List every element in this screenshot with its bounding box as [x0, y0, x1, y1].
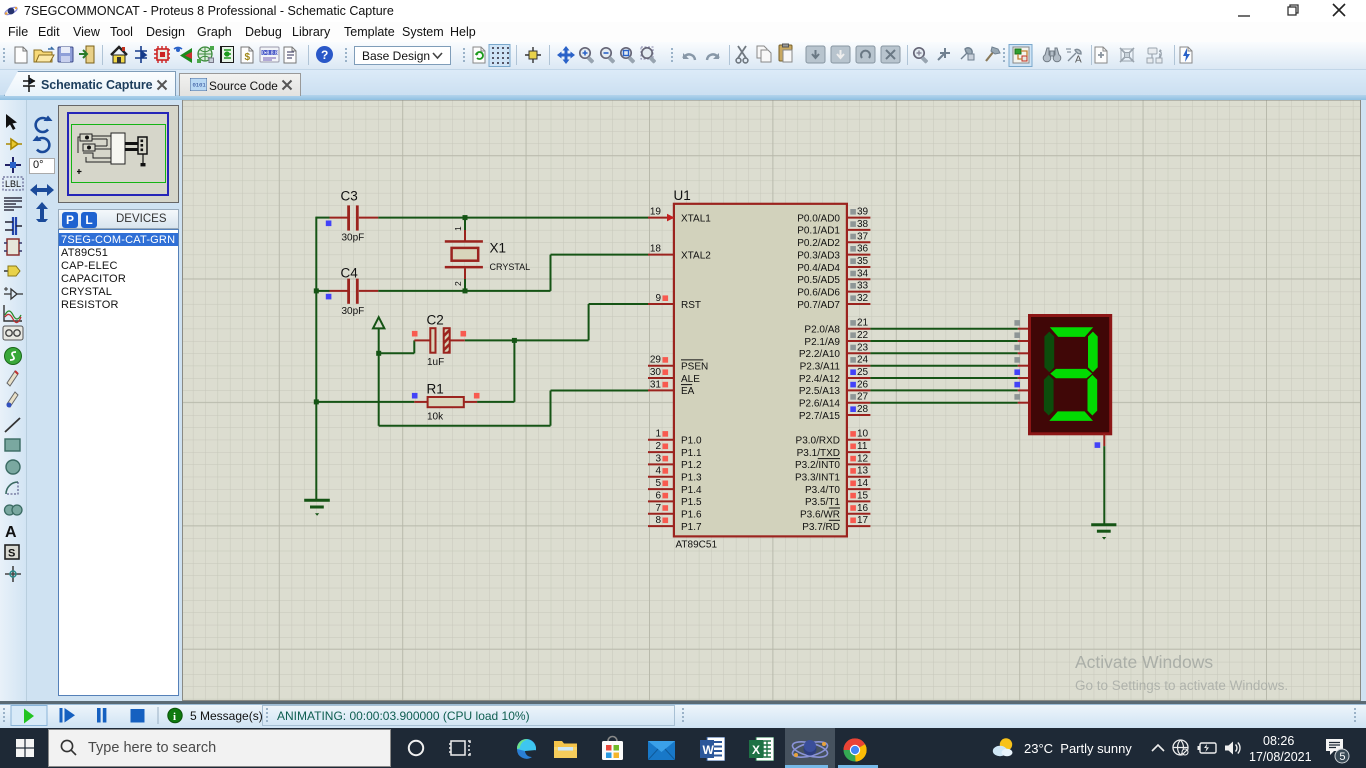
pin 36 (P0.3/AD3) right stub	[797, 244, 870, 262]
svg-text:17: 17	[857, 515, 869, 526]
tab bar	[0, 70, 1366, 100]
pan	[557, 46, 575, 64]
pin 38 (P0.1/AD1) right stub	[797, 219, 870, 237]
pin 26 (P2.5/A13) right stub	[799, 379, 871, 397]
inactive tab Source Code	[179, 73, 301, 96]
svg-text:U1: U1	[674, 188, 691, 203]
wire P2.0 to display seg	[870, 320, 1029, 329]
proteus active	[785, 728, 835, 768]
svg-text:30: 30	[650, 367, 662, 378]
devices list	[58, 229, 179, 696]
title bar	[0, 0, 1366, 22]
zoom in	[580, 48, 595, 64]
svg-text:37: 37	[857, 231, 869, 242]
svg-text:18: 18	[650, 244, 662, 255]
svg-text:6: 6	[655, 490, 661, 501]
status bar	[0, 704, 1366, 728]
pin 35 (P0.4/AD4) right stub	[797, 256, 870, 274]
svg-text:26: 26	[857, 379, 869, 390]
refresh	[473, 47, 485, 63]
power symbol (VCC arrow)	[373, 317, 384, 426]
ground (display common)	[1091, 525, 1116, 540]
bom	[241, 47, 253, 63]
pin 17 (P3.7/RD) right stub	[802, 515, 870, 533]
tray	[1150, 742, 1166, 754]
svg-text:24: 24	[857, 355, 869, 366]
svg-text:P2.4/A12: P2.4/A12	[799, 374, 841, 385]
svg-text:9: 9	[655, 293, 661, 304]
svg-text:22: 22	[857, 330, 869, 341]
pin 13 (P3.3/INT1) right stub	[795, 466, 870, 484]
pin 37 (P0.2/AD2) right stub	[797, 231, 870, 249]
wire C2 left to power rail	[379, 340, 415, 353]
svg-text:11: 11	[857, 441, 868, 452]
svg-text:EA: EA	[681, 386, 695, 397]
explorer	[554, 739, 578, 760]
pin 29 (PSEN) left stub	[648, 355, 708, 373]
svg-text:P2.5/A13: P2.5/A13	[799, 386, 841, 397]
taskbar	[0, 728, 1366, 768]
node junction power rail / C2	[376, 351, 381, 356]
pin 30 (ALE) left stub	[648, 367, 700, 385]
svg-text:P3.4/T0: P3.4/T0	[805, 485, 840, 496]
XTAL1 clock arrow marker	[667, 214, 675, 222]
svg-text:P0.7/AD7: P0.7/AD7	[797, 300, 840, 311]
zoom area	[641, 47, 656, 64]
svg-text:P2.6/A14: P2.6/A14	[799, 399, 841, 410]
pin 34 (P0.5/AD5) right stub	[797, 268, 870, 286]
pin 32 (P0.7/AD7) right stub	[797, 293, 870, 311]
active tab Schematic Capture	[4, 71, 176, 96]
wire P2.1 to display seg	[870, 332, 1029, 341]
search box	[48, 729, 391, 768]
svg-text:P0.3/AD3: P0.3/AD3	[797, 250, 840, 261]
undo redo	[683, 53, 695, 60]
svg-text:P3.5/T1: P3.5/T1	[805, 497, 840, 508]
edge	[516, 738, 537, 759]
svg-text:21: 21	[857, 318, 869, 329]
svg-text:7: 7	[655, 503, 661, 514]
svg-text:P0.0/AD0: P0.0/AD0	[797, 213, 840, 224]
start button	[16, 739, 34, 757]
svg-text:5: 5	[655, 478, 661, 489]
wire R1 net	[316, 401, 514, 403]
wire P2.2 to display seg	[870, 345, 1029, 354]
svg-text:33: 33	[857, 281, 869, 292]
svg-text:Go to Settings to activate Win: Go to Settings to activate Windows.	[1075, 678, 1288, 693]
cut	[736, 46, 748, 63]
svg-text:RST: RST	[681, 300, 701, 311]
svg-text:P1.2: P1.2	[681, 460, 702, 471]
svg-text:P2.2/A10: P2.2/A10	[799, 349, 841, 360]
svg-text:2: 2	[453, 281, 463, 286]
svg-text:XTAL1: XTAL1	[681, 213, 711, 224]
svg-text:P3.7/RD: P3.7/RD	[802, 522, 840, 533]
book circuit	[220, 46, 234, 63]
svg-text:13: 13	[857, 466, 869, 477]
svg-text:14: 14	[857, 478, 869, 489]
grid toggle pressed	[489, 45, 510, 67]
svg-text:35: 35	[857, 256, 869, 267]
svg-text:P0.4/AD4: P0.4/AD4	[797, 263, 840, 274]
notes	[284, 5, 572, 64]
weather	[992, 736, 1015, 759]
svg-text:A: A	[1075, 55, 1082, 66]
excel	[749, 737, 774, 761]
svg-text:P2.0/A8: P2.0/A8	[804, 325, 840, 336]
svg-text:0•8.8.8: 0•8.8.8	[262, 50, 278, 56]
zoom out	[601, 48, 616, 64]
pin 19 (XTAL1) left stub	[648, 207, 711, 225]
wire P2.6 to display seg	[870, 394, 1029, 403]
pin 7 (P1.6) left stub	[648, 503, 702, 521]
view arrow	[174, 48, 192, 64]
red chip	[154, 46, 170, 63]
svg-text:28: 28	[857, 404, 869, 415]
crystal X1	[445, 218, 530, 291]
svg-text:32: 32	[857, 293, 869, 304]
menu bar	[0, 22, 1366, 42]
copy	[757, 46, 771, 62]
svg-text:P3.2/INT0: P3.2/INT0	[795, 460, 840, 471]
window buttons	[1230, 0, 1366, 22]
cortana	[407, 739, 425, 757]
rotate controls	[27, 100, 58, 230]
work area green border	[71, 124, 166, 183]
node junction RST/R1	[512, 338, 517, 343]
pin 24 (P2.3/A11) right stub	[800, 355, 871, 373]
svg-text:R1: R1	[427, 382, 444, 397]
component mode	[135, 46, 147, 63]
paste	[779, 44, 792, 62]
pin 2 (P1.1) left stub	[648, 441, 702, 459]
pin 10 (P3.0/RXD) right stub	[796, 429, 871, 447]
origin	[525, 47, 541, 63]
svg-text:P2.7/A15: P2.7/A15	[799, 411, 841, 422]
svg-text:23: 23	[857, 342, 869, 353]
svg-text:30pF: 30pF	[342, 233, 365, 244]
svg-text:P1.6: P1.6	[681, 510, 702, 521]
svg-text:P3.6/WR: P3.6/WR	[800, 510, 840, 521]
svg-text:34: 34	[857, 268, 869, 279]
node junction R1 left	[314, 399, 319, 404]
svg-text:16: 16	[857, 503, 869, 514]
capacitor C4	[326, 266, 378, 317]
svg-text:5: 5	[1339, 751, 1345, 763]
chrome	[843, 738, 867, 762]
svg-text:CRYSTAL: CRYSTAL	[490, 262, 531, 272]
pin 21 (P2.0/A8) right stub	[804, 318, 870, 336]
svg-text:4: 4	[655, 466, 661, 477]
sheet border	[67, 112, 169, 196]
node junction C3/X1 top	[463, 215, 468, 220]
svg-text:38: 38	[857, 219, 869, 230]
resistor R1	[412, 382, 480, 423]
P button	[62, 212, 78, 228]
notifications	[1326, 738, 1350, 764]
svg-text:P2.3/A11: P2.3/A11	[800, 362, 841, 373]
svg-text:1uF: 1uF	[427, 357, 444, 368]
svg-text:$: $	[245, 52, 251, 63]
svg-text:A: A	[5, 524, 17, 541]
svg-text:P0.6/AD6: P0.6/AD6	[797, 287, 840, 298]
svg-text:27: 27	[857, 392, 869, 403]
svg-text:P1.5: P1.5	[681, 497, 702, 508]
svg-text:10k: 10k	[427, 412, 444, 423]
svg-text:2: 2	[655, 441, 661, 452]
svg-text:P1.0: P1.0	[681, 436, 702, 447]
svg-text:P0.1/AD1: P0.1/AD1	[797, 226, 840, 237]
IC U1 body	[674, 188, 847, 551]
svg-text:S: S	[8, 548, 15, 560]
pin 1 (P1.0) left stub	[648, 429, 702, 447]
binoculars	[1043, 48, 1061, 62]
svg-text:XTAL2: XTAL2	[681, 250, 711, 261]
pin 27 (P2.6/A14) right stub	[799, 392, 871, 410]
open	[34, 47, 54, 62]
globe search	[197, 46, 214, 63]
save	[58, 47, 73, 62]
new	[15, 47, 27, 63]
word	[700, 737, 725, 761]
wire P2.3 to display seg	[870, 357, 1029, 366]
svg-text:31: 31	[650, 379, 662, 390]
svg-text:8: 8	[655, 515, 661, 526]
svg-text:10: 10	[857, 429, 869, 440]
pin 18 (XTAL2) left stub	[648, 244, 711, 262]
svg-text:Activate Windows: Activate Windows	[1075, 652, 1213, 672]
title text	[24, 4, 394, 18]
pin 39 (P0.0/AD0) right stub	[797, 207, 870, 225]
svg-text:P1.3: P1.3	[681, 473, 702, 484]
node junction C4 left	[314, 288, 319, 293]
home	[111, 47, 127, 63]
svg-text:C4: C4	[341, 266, 359, 281]
node junction C4/X1 bottom	[463, 288, 468, 293]
svg-text:?: ?	[321, 48, 328, 62]
svg-text:25: 25	[857, 367, 869, 378]
pin 33 (P0.6/AD6) right stub	[797, 281, 870, 299]
svg-text:30pF: 30pF	[342, 306, 365, 317]
wire EA net (power rail to pin31)	[379, 391, 649, 426]
svg-text:P0.2/AD2: P0.2/AD2	[797, 238, 840, 249]
svg-text:39: 39	[857, 207, 869, 218]
svg-text:3: 3	[655, 453, 661, 464]
svg-text:P0.5/AD5: P0.5/AD5	[797, 275, 840, 286]
app icon	[4, 4, 18, 18]
svg-text:X1: X1	[490, 241, 507, 256]
pin 23 (P2.2/A10) right stub	[799, 342, 871, 360]
pin 25 (P2.4/A12) right stub	[799, 367, 871, 385]
svg-text:AT89C51: AT89C51	[676, 540, 718, 551]
svg-text:19: 19	[650, 207, 662, 218]
svg-text:0101: 0101	[193, 82, 207, 89]
svg-text:C2: C2	[427, 313, 444, 328]
pin 12 (P3.2/INT0) right stub	[795, 453, 870, 471]
svg-text:i: i	[173, 711, 176, 723]
svg-text:P1.1: P1.1	[681, 448, 702, 459]
svg-text:PSEN: PSEN	[681, 362, 708, 373]
left tool strip	[0, 100, 27, 703]
svg-text:X: X	[752, 743, 760, 757]
mail	[648, 739, 675, 760]
toolbar	[0, 42, 1366, 70]
pin 3 (P1.2) left stub	[648, 453, 702, 471]
task view	[449, 739, 474, 757]
svg-text:12: 12	[857, 453, 869, 464]
svg-text:W: W	[703, 743, 715, 757]
activate windows watermark	[1075, 652, 1288, 693]
pin 5 (P1.4) left stub	[648, 478, 702, 496]
wire XTAL2 net (C4 row to pin18)	[316, 255, 648, 291]
svg-text:LBL: LBL	[5, 179, 21, 189]
pin 16 (P3.6/WR) right stub	[800, 503, 870, 521]
pin 6 (P1.5) left stub	[648, 490, 702, 508]
store	[600, 735, 625, 761]
wire P2.5 to display seg	[870, 382, 1029, 391]
mini schematic	[71, 124, 166, 183]
border below schematic	[0, 701, 1366, 704]
L button	[81, 212, 97, 228]
svg-text:1: 1	[655, 429, 661, 440]
Base Design combo	[354, 46, 451, 65]
svg-text:P1.4: P1.4	[681, 485, 702, 496]
svg-text:ALE: ALE	[681, 374, 700, 385]
import	[79, 46, 94, 63]
wire display common to ground	[1095, 434, 1105, 524]
pin 11 (P3.1/TXD) right stub	[797, 441, 871, 459]
svg-text:36: 36	[857, 244, 869, 255]
wire P2.4 to display seg	[870, 369, 1029, 378]
overview (world view) panel	[58, 105, 179, 203]
pin 22 (P2.1/A9) right stub	[804, 330, 870, 348]
svg-text:P3.3/INT1: P3.3/INT1	[795, 473, 840, 484]
7-segment display DS1 body	[1030, 316, 1111, 434]
pin 8 (P1.7) left stub	[648, 515, 702, 533]
svg-text:C3: C3	[341, 189, 358, 204]
pin 31 (EA) left stub	[648, 379, 695, 397]
svg-text:P3.1/TXD: P3.1/TXD	[797, 448, 840, 459]
wire RST net (C2 right to pin9)	[465, 304, 649, 402]
ground (left rail)	[304, 500, 330, 516]
wire left vertical GND rail	[315, 217, 317, 500]
svg-text:P3.0/RXD: P3.0/RXD	[796, 436, 840, 447]
svg-text:P1.7: P1.7	[681, 522, 702, 533]
meter	[260, 47, 279, 62]
pin 15 (P3.5/T1) right stub	[805, 490, 870, 508]
help	[316, 46, 333, 63]
pin 9 (RST) left stub	[648, 293, 701, 311]
pin 28 (P2.7/A15) right stub	[799, 404, 871, 422]
property assign	[1066, 49, 1082, 66]
pin 14 (P3.4/T0) right stub	[805, 478, 870, 496]
devices panel header	[58, 209, 179, 229]
svg-text:1: 1	[453, 226, 463, 231]
capacitor C2 (electrolytic 1uF)	[412, 313, 466, 369]
capacitor C3	[326, 189, 378, 244]
zoom all	[621, 48, 636, 64]
wire XTAL1 net (C3 to pin19)	[316, 217, 648, 219]
svg-text:29: 29	[650, 355, 662, 366]
svg-text:P2.1/A9: P2.1/A9	[804, 337, 840, 348]
svg-text:15: 15	[857, 490, 869, 501]
netlist icon pressed	[1009, 45, 1032, 67]
pin 4 (P1.3) left stub	[648, 466, 702, 484]
